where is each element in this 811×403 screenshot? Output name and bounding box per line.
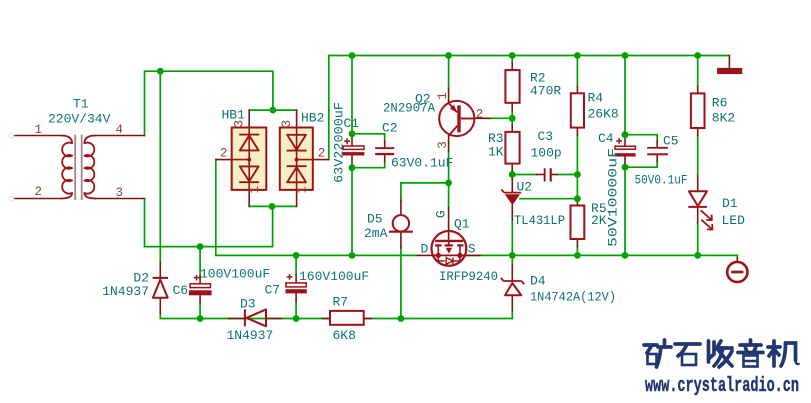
svg-text:6K8: 6K8 <box>333 328 356 343</box>
svg-text:1: 1 <box>436 92 450 100</box>
svg-text:2: 2 <box>35 185 43 199</box>
svg-text:D4: D4 <box>530 273 546 288</box>
svg-text:50V0.1uF: 50V0.1uF <box>635 173 688 188</box>
svg-text:T1: T1 <box>73 97 89 112</box>
svg-text:D1: D1 <box>722 196 738 211</box>
svg-text:S: S <box>468 242 476 257</box>
svg-text:2N2907A: 2N2907A <box>383 101 435 116</box>
svg-text:LED: LED <box>722 213 746 228</box>
svg-text:1N4937: 1N4937 <box>102 284 149 299</box>
svg-text:2K: 2K <box>591 213 607 228</box>
svg-text:C6: C6 <box>173 283 189 298</box>
svg-text:100V100uF: 100V100uF <box>200 267 270 282</box>
svg-text:G: G <box>433 210 448 218</box>
svg-text:Q1: Q1 <box>454 217 470 232</box>
svg-text:D: D <box>421 242 429 257</box>
svg-text:3: 3 <box>232 120 246 128</box>
svg-text:C7: C7 <box>265 283 281 298</box>
svg-text:3: 3 <box>280 120 294 128</box>
svg-text:R6: R6 <box>712 96 728 111</box>
svg-text:26K8: 26K8 <box>588 107 619 122</box>
svg-text:100p: 100p <box>531 145 562 160</box>
svg-text:2: 2 <box>220 146 228 160</box>
svg-text:50V10000uF: 50V10000uF <box>606 148 621 247</box>
svg-text:1: 1 <box>35 123 43 137</box>
svg-text:63V22000uF: 63V22000uF <box>332 102 347 183</box>
svg-text:3: 3 <box>116 186 124 200</box>
svg-text:4: 4 <box>116 123 124 137</box>
svg-text:www.crystalradio.cn: www.crystalradio.cn <box>645 375 799 398</box>
svg-text:D5: D5 <box>367 212 383 227</box>
svg-text:IRFP9240: IRFP9240 <box>439 269 498 284</box>
svg-text:1: 1 <box>248 186 262 194</box>
svg-text:1K: 1K <box>488 145 504 160</box>
svg-text:C4: C4 <box>598 131 614 146</box>
svg-text:1N4937: 1N4937 <box>227 328 274 343</box>
svg-text:2: 2 <box>476 108 484 122</box>
svg-text:8K2: 8K2 <box>712 111 735 126</box>
svg-text:2: 2 <box>318 146 326 160</box>
svg-text:R7: R7 <box>333 295 349 310</box>
svg-text:R4: R4 <box>588 91 604 106</box>
svg-text:220V/34V: 220V/34V <box>48 112 111 127</box>
svg-text:HB2: HB2 <box>301 110 324 125</box>
svg-text:1N4742A(12V): 1N4742A(12V) <box>530 289 616 304</box>
svg-text:TL431LP: TL431LP <box>514 213 565 228</box>
svg-text:63V0.1uF: 63V0.1uF <box>391 156 453 171</box>
svg-text:470R: 470R <box>530 84 561 99</box>
svg-text:C3: C3 <box>538 129 554 144</box>
svg-text:3: 3 <box>436 141 450 149</box>
svg-text:1: 1 <box>296 186 310 194</box>
svg-text:U2: U2 <box>517 180 533 195</box>
svg-text:C5: C5 <box>663 134 679 149</box>
svg-text:D3: D3 <box>240 297 256 312</box>
svg-text:160V100uF: 160V100uF <box>299 269 369 284</box>
svg-text:2mA: 2mA <box>364 226 388 241</box>
svg-text:C2: C2 <box>382 121 398 136</box>
